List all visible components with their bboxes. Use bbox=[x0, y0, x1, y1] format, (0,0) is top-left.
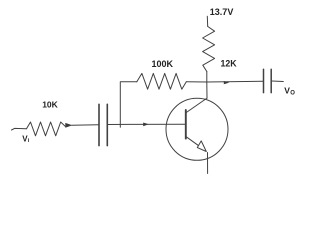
capacitor C2 right plate bbox=[270, 69, 272, 92]
label 13.7V bbox=[210, 7, 234, 17]
wire collector vertical to node bbox=[206, 82, 208, 98]
transistor Q1 emitter lead (diagonal with arrow) bbox=[186, 137, 199, 147]
arrowhead on base wire bbox=[143, 123, 149, 127]
label 10K bbox=[42, 100, 58, 110]
resistor R1 10K bbox=[27, 122, 66, 136]
wire 12K bottom to collector node bbox=[206, 72, 208, 83]
transistor Q1 collector lead (diagonal inside circle) bbox=[186, 98, 207, 113]
transistor Q1 base bar bbox=[185, 110, 187, 139]
wire base line from C1 to transistor base bbox=[108, 123, 186, 125]
transistor Q1 emitter arrowhead bbox=[197, 141, 206, 152]
svg-text:13.7V: 13.7V bbox=[210, 7, 234, 17]
capacitor C1 right plate bbox=[106, 104, 108, 145]
transistor Q1 body circle bbox=[166, 98, 228, 160]
wire output terminal to Vo bbox=[272, 80, 284, 83]
node base junction (feedback tap) bbox=[119, 125, 121, 128]
label 100K bbox=[152, 59, 174, 69]
arrowhead on input wire after 10K bbox=[65, 123, 72, 128]
wire supply from 13.7V down to 12K bbox=[206, 16, 208, 26]
wire from 10K to capacitor C1 bbox=[72, 124, 99, 127]
svg-text:O: O bbox=[290, 90, 295, 96]
wire collector node to output capacitor C2 bbox=[207, 80, 263, 83]
wire 100K to collector node bbox=[186, 81, 207, 83]
resistor R2 100K bbox=[137, 73, 187, 89]
capacitor C1 (input coupling) left plate bbox=[98, 104, 100, 145]
label Vi bbox=[22, 134, 30, 144]
svg-text:100K: 100K bbox=[152, 59, 174, 69]
svg-text:12K: 12K bbox=[221, 58, 238, 68]
wire feedback vertical bbox=[120, 82, 137, 125]
resistor R3 12K (vertical) bbox=[203, 27, 215, 72]
wire input terminal from Vi bbox=[12, 128, 27, 130]
svg-text:10K: 10K bbox=[42, 100, 58, 110]
svg-text:i: i bbox=[28, 138, 30, 144]
label 12K bbox=[221, 58, 238, 68]
arrowhead on output wire bbox=[224, 81, 230, 84]
capacitor C2 (output coupling) left plate bbox=[263, 69, 265, 92]
label Vo bbox=[284, 86, 295, 97]
wire emitter below circle bbox=[207, 153, 209, 174]
